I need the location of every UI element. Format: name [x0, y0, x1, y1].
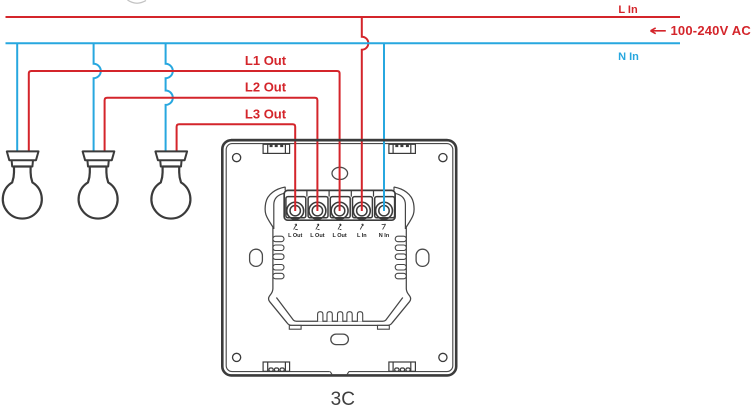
wire N In (top cyan line) — [6, 42, 681, 44]
mounting slot bottom-left — [263, 362, 290, 371]
module shoulder inner line right — [395, 193, 406, 229]
switch module outer contour — [265, 187, 414, 325]
svg-text:L Out: L Out — [310, 233, 324, 239]
wire L In drop to terminal 4 (hops over N line) — [362, 17, 369, 211]
module bottom-left tab — [289, 325, 301, 329]
wire N In drop to terminal 5 — [383, 43, 385, 211]
svg-text:3C: 3C — [331, 389, 355, 410]
terminal pin symbols — [294, 224, 386, 230]
plate top border redraw (over wires) — [231, 139, 448, 142]
svg-text:L In: L In — [357, 233, 367, 239]
plate bottom oval hole — [331, 334, 349, 345]
lamp 2 — [79, 151, 118, 218]
stray arc top-left (cropped remnant) — [128, 0, 147, 3]
screw hole top-left — [233, 154, 241, 162]
module bottom teeth — [318, 312, 363, 322]
module bottom-right tab — [378, 325, 390, 329]
wire neutral drop to lamp 1 — [16, 43, 18, 152]
switch plate inner frame — [226, 144, 453, 372]
bottom cable notch — [330, 369, 349, 375]
terminal cell 2 — [308, 197, 328, 218]
switch module inner bottom contour — [276, 298, 402, 322]
svg-text:L1 Out: L1 Out — [245, 53, 287, 68]
terminal screw 1 (L Out) — [287, 202, 304, 219]
svg-text:L In: L In — [618, 4, 638, 16]
mounting slot bottom-right — [389, 362, 416, 371]
svg-text:L3 Out: L3 Out — [245, 107, 287, 122]
mounting slot top-left — [263, 144, 290, 153]
lamp 3 — [151, 151, 190, 218]
terminal cell 3 — [330, 197, 350, 218]
screw hole bottom-right — [439, 353, 447, 361]
wire neutral drop to lamp 3 (hops over L1 and L2) — [166, 43, 173, 152]
module right side teeth — [395, 236, 406, 279]
wire neutral drop to lamp 2 (hops over L1) — [94, 43, 101, 152]
screw hole top-right — [439, 154, 447, 162]
terminal screw 4 (L In) — [353, 202, 370, 219]
screw hole bottom-left — [233, 353, 241, 361]
module shoulder inner line left — [274, 193, 285, 229]
terminal cell 1 — [286, 197, 306, 218]
plate right oval hole — [416, 249, 429, 266]
svg-text:100-240V AC: 100-240V AC — [671, 23, 752, 38]
mounting slot top-right — [389, 144, 416, 153]
terminal screw 5 (N In) — [376, 202, 393, 219]
terminal screw 3 (L Out) — [331, 202, 348, 219]
svg-text:L Out: L Out — [288, 233, 302, 239]
module horn stub left — [284, 187, 286, 191]
plate left oval hole — [250, 249, 263, 266]
wire L1 Out (lamp1 to terminal 3) — [29, 71, 340, 211]
terminal screw 2 (L Out) — [309, 202, 326, 219]
wire L In (top red line) — [6, 16, 681, 18]
svg-text:L2 Out: L2 Out — [245, 80, 287, 95]
module left side teeth — [273, 236, 284, 279]
terminal block top bar ticks — [307, 190, 374, 196]
plate top oval hole — [332, 167, 348, 179]
module horn stub right — [393, 187, 395, 191]
svg-text:N In: N In — [618, 51, 639, 63]
terminal labels — [288, 233, 390, 239]
terminal block body — [284, 190, 395, 220]
lamp 1 — [3, 151, 42, 218]
arrow 100-240V AC — [651, 28, 666, 34]
wire L3 Out (lamp3 to terminal 1) — [177, 124, 296, 211]
svg-text:N In: N In — [379, 233, 390, 239]
terminal cell 5 — [375, 197, 395, 218]
wire L2 Out (lamp2 to terminal 2) — [105, 98, 318, 211]
switch plate outer frame — [222, 140, 456, 375]
terminal cell 4 — [353, 197, 373, 218]
svg-text:L Out: L Out — [332, 233, 346, 239]
